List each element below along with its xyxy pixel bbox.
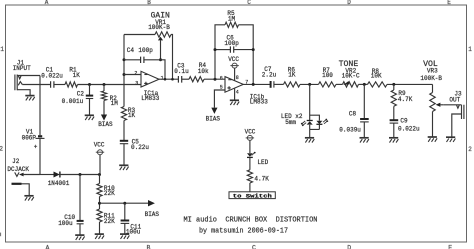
svg-text:INPUT: INPUT — [13, 65, 31, 72]
wire pin2/feedback column — [123, 35, 125, 107]
wire IC1a out — [159, 78, 178, 80]
svg-text:by matsumin 2006-09-17: by matsumin 2006-09-17 — [199, 228, 288, 236]
J2 sleeve bar — [12, 183, 22, 185]
ground (VR3) — [428, 136, 437, 138]
ground (J2) — [24, 195, 33, 197]
svg-text:2: 2 — [134, 70, 137, 76]
LED D1 (up) — [307, 120, 313, 122]
wire to IC1a pin 2 — [124, 74, 141, 76]
BIAS arrow (R2) — [101, 115, 107, 121]
svg-text:C: C — [252, 245, 256, 249]
ground (clipping LEDs) — [305, 137, 314, 139]
svg-text:to Switch: to Switch — [233, 193, 273, 200]
svg-text:A: A — [46, 245, 50, 249]
svg-text:VR3: VR3 — [427, 68, 438, 75]
svg-text:1K: 1K — [73, 72, 81, 79]
svg-text:10K-C: 10K-C — [342, 72, 360, 79]
svg-text:0.022u: 0.022u — [398, 126, 420, 133]
svg-text:B: B — [147, 245, 151, 249]
node feedback — [164, 78, 167, 81]
svg-text:C4: C4 — [127, 47, 135, 54]
svg-text:3: 3 — [135, 80, 138, 86]
svg-text:100p: 100p — [224, 40, 239, 47]
svg-text:4: 4 — [236, 90, 239, 96]
node BIAS divider — [98, 202, 101, 205]
svg-text:VCC: VCC — [245, 129, 256, 136]
ground (C9) — [389, 137, 398, 139]
wire C1 to R1 — [54, 84, 65, 86]
ground (C2) — [85, 114, 94, 116]
svg-text:1: 1 — [0, 46, 4, 53]
svg-text:DCJACK: DCJACK — [7, 166, 29, 173]
svg-text:1N4001: 1N4001 — [48, 180, 70, 187]
LED D2 (down) — [316, 121, 322, 124]
ground (C11) — [120, 233, 129, 235]
svg-text:4.7K: 4.7K — [398, 96, 413, 103]
svg-text:1: 1 — [468, 46, 472, 53]
svg-text:BIAS: BIAS — [98, 121, 113, 128]
svg-text:D: D — [347, 0, 351, 6]
svg-text:22K: 22K — [104, 218, 115, 225]
IC1b feedback loop wires — [215, 25, 225, 79]
node C4 left — [123, 58, 126, 61]
svg-text:8: 8 — [236, 75, 239, 81]
battery column from J1 — [39, 76, 41, 136]
svg-text:VCC: VCC — [228, 56, 239, 63]
svg-text:+: + — [34, 144, 38, 151]
VR2 wiper arrow — [343, 81, 349, 85]
svg-text:0.022u: 0.022u — [41, 72, 63, 79]
svg-text:1K: 1K — [288, 72, 296, 79]
node: R2 tap — [103, 83, 106, 86]
svg-text:0.001u: 0.001u — [62, 98, 84, 105]
svg-text:100p: 100p — [138, 47, 153, 54]
node pin6 — [214, 78, 217, 81]
svg-text:C2: C2 — [77, 91, 85, 98]
svg-text:100: 100 — [322, 72, 333, 79]
node VCC/R10 — [98, 173, 101, 176]
ground (C8) — [360, 137, 369, 139]
svg-text:2: 2 — [0, 146, 3, 153]
svg-text:LM833: LM833 — [250, 99, 268, 106]
node: C2 tap — [88, 83, 91, 86]
svg-text:LED: LED — [257, 159, 268, 166]
svg-text:1M: 1M — [228, 15, 236, 22]
ground (C10) — [75, 234, 84, 236]
svg-text:10K: 10K — [371, 72, 382, 79]
ground (J3) — [446, 136, 455, 138]
svg-text:VCC: VCC — [94, 142, 105, 149]
node C6 left — [214, 48, 217, 51]
node LED tap — [308, 83, 311, 86]
svg-text:1M: 1M — [111, 100, 119, 107]
node out — [252, 83, 255, 86]
svg-text:2: 2 — [468, 146, 472, 153]
wire IC1b out — [243, 83, 270, 85]
node R9 tap — [392, 83, 395, 86]
svg-text:2.2u: 2.2u — [262, 71, 277, 78]
svg-text:006P: 006P — [22, 135, 37, 142]
VR1 wiper — [158, 37, 163, 41]
node C6 right — [252, 48, 255, 51]
svg-text:OUT: OUT — [449, 97, 460, 104]
svg-text:100u: 100u — [58, 220, 73, 227]
svg-text:LM833: LM833 — [141, 95, 159, 102]
svg-text:0.1u: 0.1u — [174, 68, 189, 75]
svg-text:C9: C9 — [400, 118, 408, 125]
IC1b pin5 to BIAS — [214, 90, 225, 108]
wire R1 to IC1a pin3 — [78, 84, 142, 86]
node pin2 — [123, 73, 126, 76]
BIAS output arrow — [100, 202, 149, 204]
svg-text:0.22u: 0.22u — [131, 144, 149, 151]
svg-text:MI audio CRUNCH BOX DISTORTI: MI audio CRUNCH BOX DISTORTION — [184, 217, 318, 225]
svg-text:100K-B: 100K-B — [420, 75, 442, 82]
node C8 tap — [363, 83, 366, 86]
svg-text:22K: 22K — [104, 190, 115, 197]
svg-text:D: D — [347, 245, 351, 249]
svg-text:BIAS: BIAS — [206, 116, 221, 123]
svg-text:C8: C8 — [349, 111, 357, 118]
svg-text:E: E — [448, 245, 452, 249]
node VR1 wiper / C4 — [159, 58, 162, 61]
op-amp IC1b LM833 — [225, 77, 243, 93]
to Switch box — [229, 192, 275, 199]
wire J1 tip to C1 — [22, 84, 50, 86]
ground (R11) — [95, 233, 104, 235]
svg-text:E: E — [447, 0, 451, 6]
node C11 tap — [123, 202, 126, 205]
svg-text:B: B — [147, 0, 151, 6]
op-amp IC1a LM833 — [141, 71, 159, 87]
BIAS arrow (pin5) — [211, 108, 217, 114]
svg-text:BIAS: BIAS — [145, 211, 160, 218]
svg-text:1K: 1K — [128, 112, 136, 119]
svg-text:6: 6 — [220, 75, 223, 81]
svg-text:1: 1 — [161, 75, 164, 81]
svg-text:100K-B: 100K-B — [148, 24, 170, 31]
svg-text:5mm: 5mm — [285, 119, 296, 126]
ground (J1 sleeve) — [25, 95, 34, 97]
svg-text:10k: 10k — [198, 68, 209, 75]
VR3 wiper arrow — [436, 103, 441, 107]
svg-text:C: C — [247, 0, 251, 6]
ground (C5) — [119, 164, 128, 166]
node C10 tap — [79, 173, 82, 176]
IC1b pin4 ground — [234, 88, 236, 100]
node VR1 end — [171, 78, 174, 81]
svg-text:4.7K: 4.7K — [254, 176, 269, 183]
svg-text:J2: J2 — [12, 158, 20, 165]
svg-text:A: A — [45, 0, 49, 6]
svg-text:0.039u: 0.039u — [339, 127, 361, 134]
clipped row label left bottom — [0, 233, 1, 237]
